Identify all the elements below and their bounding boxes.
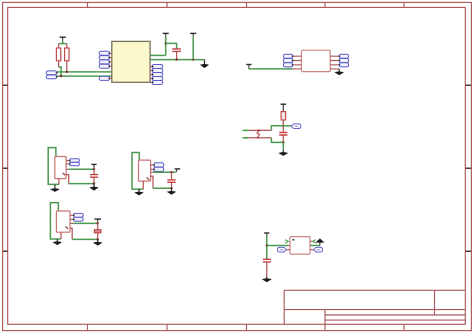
U2 left pins bbox=[283, 54, 301, 67]
junction VCC3-groundnet bbox=[192, 58, 194, 60]
wire VCC1 stem bbox=[59, 41, 67, 44]
junction Q3 rail top bbox=[97, 222, 99, 224]
ground GND4 bbox=[50, 184, 60, 192]
Q1 pin4 wire to cap bottom bbox=[66, 175, 69, 184]
resistor R2 bbox=[65, 44, 69, 72]
IC U2 body bbox=[301, 50, 330, 71]
ground GND9 bbox=[93, 239, 103, 245]
junction VCC6 node bbox=[93, 168, 95, 170]
wire node to switch top bbox=[271, 126, 283, 131]
ground GND1 bbox=[200, 60, 209, 69]
junction switch bottom bbox=[257, 137, 259, 139]
IC U1 body bbox=[112, 41, 150, 82]
Q1 bottom lead bbox=[58, 179, 60, 185]
Q2 right pills bbox=[151, 163, 164, 172]
Q1 pin3 wire to VCC6 bbox=[66, 168, 69, 170]
transistor circuit Q1: wire loop bbox=[48, 148, 59, 185]
frame left ticks bbox=[3, 85, 8, 251]
supply VCC3 bbox=[190, 33, 196, 36]
wire U1 to VCC2 node bbox=[150, 54, 166, 56]
U3 pin1 dot bbox=[292, 239, 294, 241]
junction R2-upper net bbox=[66, 71, 68, 73]
junction VCC2/C1 branch bbox=[165, 42, 167, 44]
U2 pin to VCC4 bbox=[293, 68, 302, 70]
connector J1 pin 2 bbox=[46, 75, 57, 79]
frame top ticks bbox=[88, 2, 405, 7]
junction cap bottom node bbox=[282, 141, 284, 143]
U1 bottom-left pin bbox=[99, 76, 112, 80]
wire switch top red bbox=[249, 129, 272, 131]
title block bbox=[284, 290, 465, 324]
pin stub bottom bbox=[243, 137, 249, 139]
ground GND2 bbox=[334, 69, 344, 75]
pin stub top bbox=[243, 129, 249, 131]
wire switch bottom to cap bottom node bbox=[271, 138, 283, 143]
Q3 body bbox=[56, 211, 70, 232]
junction R3 node bbox=[282, 125, 284, 127]
wire VCC2 vertical bbox=[165, 37, 167, 56]
Q2 bottom lead bbox=[142, 181, 144, 189]
Q2 emitter mark bbox=[147, 177, 150, 179]
Q2 pin3 wire bbox=[151, 171, 153, 173]
supply VCC5 (above R3) bbox=[281, 104, 287, 111]
capacitor C1 bbox=[172, 49, 181, 60]
wire U1 to ground net bbox=[150, 59, 204, 61]
IC U3 body bbox=[290, 237, 310, 255]
wire net SCL (lower) bbox=[57, 75, 112, 77]
U3 left pin1 clock mark bbox=[285, 240, 288, 243]
capacitor C4 bbox=[167, 172, 175, 188]
supply VCC6 bbox=[91, 164, 96, 169]
ground GND3 bbox=[278, 150, 288, 156]
frame bottom ticks bbox=[88, 324, 405, 330]
connector J1 pin 1 bbox=[46, 71, 57, 75]
U3 right pin3 net flag bbox=[310, 247, 323, 252]
junction cap bottom bbox=[93, 182, 95, 184]
ground GND7 bbox=[167, 188, 177, 195]
ground GND10 bbox=[262, 277, 272, 283]
Q3 bottom lead bbox=[60, 232, 62, 239]
Q1 emitter mark bbox=[63, 173, 66, 175]
wire R1 to lower net bbox=[59, 67, 62, 76]
U3 left pin3 net flag bbox=[277, 247, 290, 252]
wire C1 branch bbox=[166, 43, 177, 48]
Q3 emitter mark bbox=[65, 226, 68, 228]
supply VCC9 (bottom-right block) bbox=[264, 233, 269, 236]
U1 right pins group bbox=[150, 65, 163, 85]
Q3 pin4 wire bbox=[70, 228, 72, 239]
ground GND6 bbox=[134, 189, 144, 195]
junction C1-groundnet bbox=[175, 58, 177, 60]
wire supply node to U3 bbox=[267, 245, 288, 247]
supply VCC1 (above R1/R2) bbox=[60, 37, 66, 41]
wire VCC3 vertical bbox=[192, 37, 194, 60]
frame right ticks bbox=[466, 85, 471, 251]
U2 right pins bbox=[330, 54, 348, 67]
supply arrow VCC10 bbox=[315, 238, 324, 242]
supply VCC4 bbox=[246, 65, 251, 69]
junction Q3 rail bottom bbox=[97, 238, 99, 240]
Q2 pin4 wire bbox=[151, 176, 153, 188]
U2 pin to ground bbox=[330, 68, 339, 70]
Q3 right pills bbox=[70, 213, 83, 221]
junction R1-lower net bbox=[60, 75, 62, 77]
resistor R1 bbox=[56, 44, 60, 67]
Q1 right pills bbox=[66, 159, 79, 166]
resistor R4 bbox=[94, 223, 101, 239]
U3 right pin2 wire to VCC arrow bbox=[310, 245, 320, 247]
capacitor C3 bbox=[90, 169, 98, 183]
junction Q2 rail bottom bbox=[170, 187, 172, 189]
junction U3 supply node bbox=[266, 244, 268, 246]
capacitor C2 bbox=[279, 126, 287, 143]
Q3 pin3 wire bbox=[70, 222, 73, 224]
wire net SDA (upper) bbox=[57, 71, 112, 73]
U1 left pins group bbox=[99, 51, 112, 68]
net flag RESET bbox=[291, 124, 301, 129]
U3 left pin2 stub bbox=[288, 245, 290, 247]
transistor circuit Q3: wire loop bbox=[50, 203, 61, 239]
wire VCC4 to U2 bbox=[249, 68, 293, 70]
supply VCC2 bbox=[163, 33, 169, 36]
U3 right pin1 clock mark bbox=[312, 240, 315, 243]
ground GND8 bbox=[53, 239, 63, 245]
junction switch top bbox=[258, 129, 260, 131]
supply VCC8 bbox=[95, 219, 102, 223]
wire to GND3 bbox=[282, 142, 284, 149]
capacitor C5 bbox=[263, 259, 271, 276]
supply VCC7 bbox=[175, 169, 181, 172]
transistor circuit Q2: wire loop bbox=[132, 153, 143, 190]
wire node to netflag bbox=[283, 125, 292, 127]
switch S1 bbox=[257, 130, 259, 137]
wire switch bottom red bbox=[249, 137, 272, 139]
ground GND5 bbox=[89, 184, 99, 191]
junction Q2 rail top bbox=[170, 171, 172, 173]
Q1 body bbox=[55, 157, 66, 179]
wire VCC9 rail bbox=[266, 236, 268, 260]
resistor R3 bbox=[281, 112, 286, 126]
Q2 body bbox=[139, 160, 151, 181]
